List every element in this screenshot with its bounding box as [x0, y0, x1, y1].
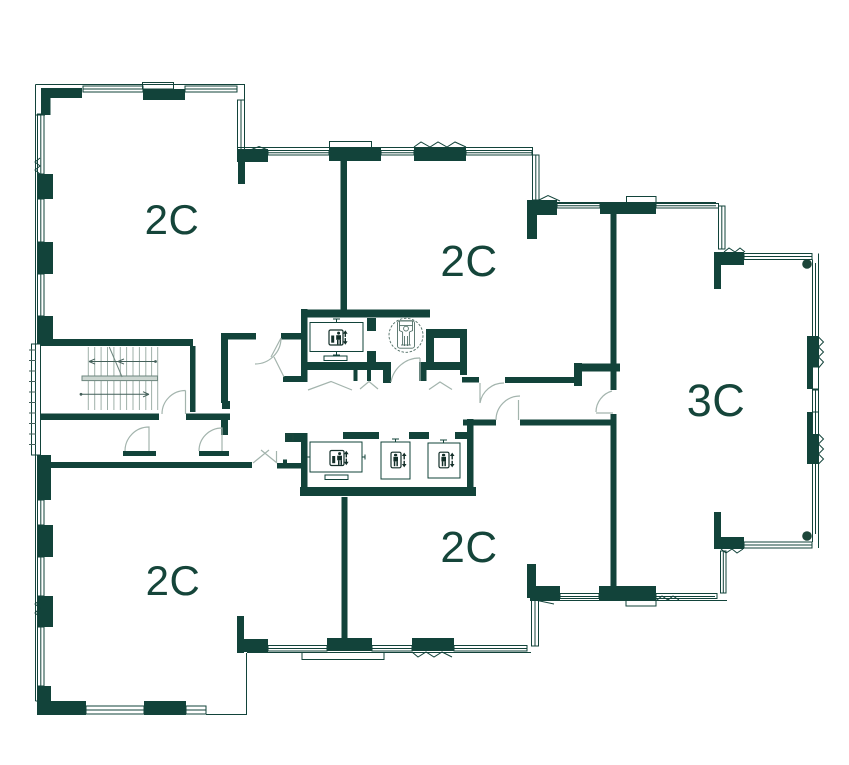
stairs: break line	[109, 347, 122, 377]
wall: lower core top stub 2	[409, 432, 429, 439]
zigzag: right facade block1	[819, 337, 824, 368]
zigzag: band5 pier C below	[412, 652, 452, 657]
wall: left facade pier 2	[37, 174, 53, 199]
wall: upper core top	[301, 310, 430, 318]
wall: interior vertical V1 bottom	[342, 497, 348, 650]
window: band2 w3	[466, 151, 532, 156]
wall: band4 pier (bay)	[599, 586, 656, 600]
wall: bottom-left unit top wall B	[277, 463, 301, 469]
wall: corridor wall to core	[281, 333, 301, 340]
wall: lower core top stub 1	[343, 432, 379, 439]
thin: band4 to band5 step	[532, 600, 539, 646]
zigzag: band2 pier C	[414, 142, 466, 147]
door arc: below stairs door A	[125, 427, 149, 451]
outer line: band3	[557, 202, 716, 204]
elevator room upper outline	[310, 323, 363, 352]
window: left w6	[38, 627, 45, 686]
elevator car 3 outline	[428, 443, 460, 478]
wall: top-left unit NE pier	[238, 150, 245, 184]
wall: lower core left	[301, 433, 308, 495]
tick: car2 top	[392, 439, 399, 443]
outer line: top-left facade	[36, 85, 245, 158]
sill below car1	[325, 475, 348, 480]
wall: band2 SE corner block	[527, 200, 557, 215]
hip mark: band2 left	[249, 147, 268, 151]
door leaf: corridor door 1	[271, 338, 281, 357]
bay outline: top band	[143, 83, 174, 90]
window: band3 w1	[557, 204, 600, 209]
wall: V2 jog horizontal	[574, 364, 620, 372]
elevator car 1 outline	[310, 442, 362, 472]
door arc: corridor south	[496, 396, 520, 420]
diag: band4 step	[535, 600, 554, 604]
hip mark: band3 left	[537, 196, 560, 202]
zigzag: left facade lower	[35, 600, 40, 617]
wall: corridor top right of stairs	[221, 333, 256, 340]
stairs: arrow up flight	[89, 359, 156, 364]
wall: band2 pier C	[414, 147, 466, 161]
window: left w1	[38, 114, 45, 174]
thin: band2 left vertical window	[238, 100, 245, 157]
svg-text:2C: 2C	[440, 237, 497, 286]
window: bottom w1	[86, 706, 144, 714]
outer line: right facade	[813, 254, 819, 549]
zigzag: 3C bottom-right	[721, 549, 743, 553]
wall: corridor south wall right	[520, 420, 611, 426]
bay outline: band3	[627, 197, 657, 203]
wall: top-left unit NW corner L	[41, 88, 82, 98]
wall: lower core bottom	[300, 487, 476, 496]
svg-text:2C: 2C	[146, 557, 201, 604]
wall: band5 pier B	[327, 638, 372, 651]
wall: below stairs	[40, 414, 159, 421]
corner dot NE	[802, 259, 812, 269]
wall: lower core right	[467, 419, 474, 489]
glazing midlines	[83, 89, 812, 710]
wall: core entry niche	[283, 376, 306, 382]
window: band5 w3	[454, 646, 527, 652]
window: right w1	[813, 367, 819, 389]
wall: lower vestibule top	[285, 433, 301, 442]
tick: car3 top	[440, 440, 447, 444]
icon: elevator upper	[329, 330, 348, 345]
outer line: bottom-left facade	[36, 700, 51, 702]
elevator car 2 outline	[381, 442, 410, 479]
window: band5 w1	[268, 646, 327, 652]
wall: niche segment 1	[123, 451, 156, 456]
outer line: left facade	[35, 85, 37, 702]
door arc: corridor to top-left unit	[255, 338, 281, 364]
walls will be inserted here	[37, 88, 818, 715]
wall: niche segment 2	[199, 451, 229, 456]
wall: left facade pier 6	[37, 525, 53, 557]
window: band2 w1	[268, 151, 329, 156]
door arc: hall to 2C bottom west	[480, 383, 504, 403]
wall: band5 pier C	[412, 638, 454, 651]
window: 3C bottom-right	[744, 542, 812, 548]
wall: door nub	[283, 460, 287, 464]
window: 3C SE vertical	[721, 551, 727, 593]
sill below elevator room upper	[324, 356, 347, 361]
window: band2 right vertical	[533, 155, 540, 200]
wall: corridor wall y380	[505, 377, 582, 383]
window: left w4	[38, 500, 45, 525]
wall: left facade pier 7	[37, 596, 53, 627]
door X: unit entry	[253, 450, 277, 463]
outer line: band5	[247, 652, 531, 654]
wall: bottom-left unit SW corner L	[37, 686, 51, 715]
wall: bottom-left unit bottom pier	[144, 701, 186, 715]
door arc: below stairs door B	[199, 428, 222, 451]
wall: upper core left	[301, 309, 308, 382]
outer line: band2	[237, 148, 533, 201]
wall: stub down at door	[383, 362, 391, 383]
wall: 3C NE corner block	[714, 252, 744, 265]
window: right w2	[813, 390, 819, 412]
bay outline: band2	[330, 142, 372, 148]
door arc: 3C entry	[596, 391, 613, 413]
zigzag: right facade block2	[819, 434, 824, 464]
wall: band4 corner block	[527, 564, 536, 598]
sill below band4 pier	[626, 600, 656, 607]
svg-text:2C: 2C	[440, 523, 497, 572]
wall: stair shaft right wall	[190, 346, 196, 412]
wall: left facade pier 3	[37, 242, 53, 274]
sill: below NW corner	[36, 114, 45, 116]
wall: band2 pier B (bay)	[329, 147, 381, 161]
window: top band w1	[83, 86, 143, 92]
window: left w5	[38, 557, 45, 596]
vent hatch marks	[29, 350, 36, 445]
wall: chute room top	[426, 329, 466, 338]
wall: interior vertical V2 (2C/3C top)	[611, 214, 617, 390]
closet chevron 3	[429, 382, 452, 390]
wall: top-left unit top pier	[143, 89, 185, 100]
window: band4 w1	[560, 594, 599, 599]
wall: upper core divider top	[367, 318, 376, 331]
wall: right facade window block 2	[807, 434, 818, 464]
zigzag: 3C top-right	[724, 248, 745, 252]
door leaf: corridor door 2	[274, 357, 284, 377]
window: stair shaft outer	[32, 344, 41, 455]
window: left w2	[38, 199, 45, 242]
wall: stair top	[40, 339, 193, 346]
window: 3C NE vertical	[719, 206, 726, 249]
window: top band w2	[185, 86, 237, 92]
wall: corridor pier column	[221, 333, 228, 403]
sill below band5 pier B	[302, 653, 384, 660]
wall: lower core top stub 3	[455, 432, 472, 439]
wall: upper core bottom	[301, 362, 391, 370]
wall: right facade window block 1	[807, 336, 818, 367]
window: bottom w2	[186, 706, 206, 714]
window: band5 w2	[372, 646, 412, 652]
svg-text:2C: 2C	[145, 196, 200, 243]
wall: chute door stub	[419, 362, 427, 381]
door leaf: lobby	[419, 358, 421, 381]
wall: closet jamb 2	[367, 370, 371, 381]
wall: corridor south wall left	[463, 420, 496, 426]
wall: left facade pier 4	[37, 316, 53, 344]
wall: interior vertical V2 bottom (2C/3C)	[611, 414, 617, 588]
window: band2 w2	[381, 151, 414, 156]
tick: room top	[333, 319, 340, 323]
stairs: treads	[88, 347, 157, 410]
closet chevron 2	[360, 382, 378, 390]
window: band4 w2	[656, 594, 717, 599]
door arc: lobby to corridor	[391, 358, 420, 382]
stairs: landing	[82, 376, 158, 381]
wall: corner bar right of chute	[462, 377, 479, 383]
wall: band5 corner L	[237, 616, 244, 653]
icon: wheelchair circle	[389, 318, 423, 352]
wall: below stairs right piece	[186, 414, 230, 421]
wall: V2 jog vertical	[574, 363, 582, 386]
wall: chute room bottom	[426, 362, 466, 370]
wall: chute room left	[426, 329, 434, 362]
wall: bottom-left unit top wall A	[38, 462, 252, 468]
thin closure: bottom-left SE	[206, 653, 247, 715]
outer line: band4	[530, 600, 727, 602]
window: band3 w2	[656, 204, 719, 209]
tick: room bottom	[333, 352, 340, 356]
wall: 3C SE corner block	[714, 537, 744, 549]
zigzag: left facade upper	[35, 158, 40, 174]
wall: chute room right	[460, 329, 467, 375]
closet chevron 1	[308, 382, 352, 391]
tick: car1 right	[362, 455, 366, 460]
window: 3C top-right	[744, 254, 812, 260]
wall: upper core divider bottom	[367, 351, 376, 370]
wall: band3 pier (bay)	[600, 202, 656, 214]
stairs: arrow down flight	[81, 392, 149, 397]
window: left w3	[38, 274, 45, 316]
corner dot SE	[802, 531, 812, 541]
wall: left facade pier 5	[37, 455, 51, 500]
wall: band2 pier A	[237, 149, 268, 162]
door arc: stair door	[162, 391, 186, 415]
icon: elevator car1 lower	[330, 451, 349, 466]
icon: vestibule mark	[286, 434, 293, 441]
wall: interior vertical V1 top (between 2C units)	[341, 161, 348, 312]
icon: elevator car3 lower	[439, 452, 455, 468]
tick: car1 left	[307, 455, 311, 460]
svg-text:3C: 3C	[687, 375, 746, 426]
wall: closet jamb 1	[354, 370, 358, 381]
zigzag: band4 right	[657, 596, 679, 600]
icon: elevator car2 lower	[391, 452, 407, 468]
